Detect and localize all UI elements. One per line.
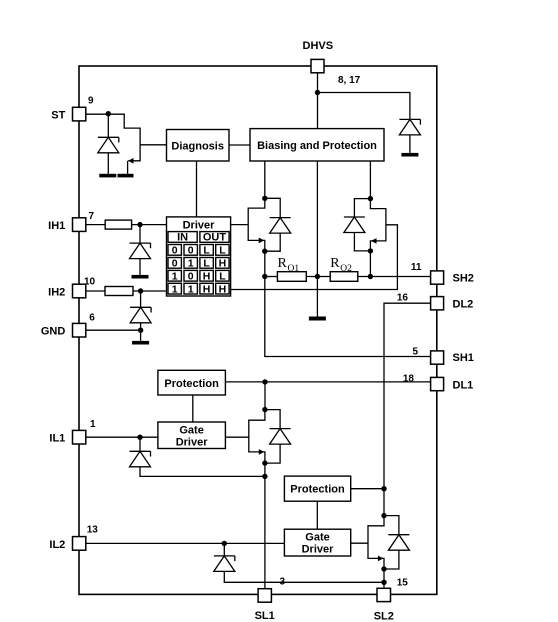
svg-text:L: L (219, 245, 226, 257)
wire ST node to zener D1 (107, 114, 109, 138)
Driver table row 1 0 H L (168, 270, 229, 282)
ground (internal) (309, 317, 326, 321)
node DL1 junction (262, 379, 267, 384)
IC boundary (79, 66, 437, 594)
wire Q1 source to resistor row (264, 251, 266, 276)
pin IH1 (73, 218, 86, 232)
zener D6 (IL2 clamp) (214, 556, 235, 572)
wire zener D5 to ground (409, 135, 411, 153)
svg-text:ST: ST (51, 110, 65, 122)
wire Diagnosis to Driver (196, 161, 198, 217)
svg-text:16: 16 (397, 293, 409, 304)
wire zener D4 to SL1 node (140, 467, 265, 477)
svg-text:0: 0 (188, 270, 194, 282)
Driver table row 1 1 H H (168, 283, 229, 295)
Gate Driver box U7 (channel 2) (284, 529, 350, 556)
zener D3 (IH2 clamp) (130, 307, 151, 323)
wire Gate Driver2 to Q4 gate (351, 542, 368, 544)
node SL1 junction (262, 474, 267, 479)
resistor R2 (IH2 input) (105, 287, 133, 296)
node IL2 junction (222, 541, 227, 546)
svg-text:H: H (219, 258, 227, 270)
svg-text:1: 1 (90, 419, 96, 430)
svg-text:Driver: Driver (183, 220, 216, 232)
svg-text:5: 5 (412, 346, 418, 357)
zener D2 (IH1 clamp) (130, 243, 151, 259)
zener D5 (DHVS clamp) (399, 119, 420, 134)
wire Diagnosis to Biasing (229, 144, 250, 146)
node ST junction (106, 111, 111, 116)
node Q1 drain (262, 196, 267, 201)
node SL2 junction (381, 580, 386, 585)
svg-text:IL2: IL2 (49, 539, 65, 551)
diode Q3 body (265, 410, 291, 464)
Protection box U6 (channel 2) (284, 476, 350, 501)
node GND junction (138, 328, 143, 333)
pin SH2 (431, 271, 444, 284)
wire Gate Driver1 to Q3 gate (225, 436, 248, 438)
wire Q2 source to resistor row (369, 251, 371, 277)
zener D1 (ST clamp) (98, 137, 119, 153)
svg-text:H: H (203, 270, 211, 282)
wire IH2 node to zener D3 (140, 291, 142, 307)
svg-text:R: R (330, 256, 340, 271)
svg-text:DL2: DL2 (453, 299, 474, 311)
ground (ST sense) (118, 174, 134, 178)
svg-text:Protection: Protection (164, 378, 219, 390)
wire DHVS stem to Biasing box (317, 73, 319, 129)
svg-text:3: 3 (280, 577, 286, 588)
diode Q2 body (344, 199, 371, 251)
wire ST pin to current-source bracket (86, 114, 140, 161)
wire DL1 node to Q3 drain (264, 382, 266, 410)
ground (DHVS clamp) (401, 153, 418, 157)
node IH2 junction (138, 288, 143, 293)
wire Driver to Q1 gate (231, 224, 249, 226)
diode Q1 body (265, 198, 291, 251)
svg-text:O1: O1 (288, 264, 300, 274)
pin SH1 (431, 351, 444, 364)
wire R2 to Driver (133, 290, 167, 292)
svg-text:IN: IN (177, 232, 188, 244)
wire zener D6 to SL2 node (224, 571, 384, 582)
svg-text:GND: GND (41, 326, 66, 338)
transistor Q3 (low-side 1) (249, 410, 265, 464)
svg-text:SH1: SH1 (453, 352, 474, 364)
svg-text:H: H (203, 283, 211, 295)
svg-text:Driver: Driver (302, 544, 335, 556)
svg-text:H: H (219, 283, 227, 295)
pin DHVS (311, 59, 324, 72)
wire ST sense to ground (127, 161, 129, 174)
svg-text:Diagnosis: Diagnosis (171, 141, 224, 153)
svg-text:Protection: Protection (290, 484, 345, 496)
pin IH2 (73, 284, 86, 298)
pin GND (73, 323, 86, 337)
wire Q3 source to SL1 pin (264, 463, 266, 589)
svg-text:13: 13 (87, 525, 99, 536)
node Protection2 junction (381, 486, 386, 491)
wire IL1 node to zener D4 (139, 437, 141, 451)
svg-text:8, 17: 8, 17 (338, 75, 361, 86)
svg-text:11: 11 (411, 262, 422, 273)
wire Q4 source to SL2 pin (383, 569, 385, 588)
svg-text:7: 7 (89, 211, 95, 222)
svg-text:Driver: Driver (176, 437, 209, 449)
ground (IH1 clamp) (132, 275, 149, 279)
pin SL1 (258, 589, 271, 603)
svg-text:L: L (219, 270, 226, 282)
wire GND pin to node (86, 329, 141, 331)
transistor Q1 arrow (259, 238, 265, 244)
svg-text:IH2: IH2 (48, 286, 65, 298)
wire Protection2 to Gate Driver2 (316, 501, 318, 529)
svg-text:OUT: OUT (203, 232, 227, 244)
wire Biasing to Q1 drain (264, 161, 266, 198)
transistor Q1 (high-side 1) (248, 198, 265, 251)
wire IH2 pin to resistor (86, 290, 105, 292)
wire resistor row left (265, 276, 278, 278)
svg-text:Biasing and Protection: Biasing and Protection (257, 140, 377, 152)
svg-text:IL1: IL1 (49, 433, 65, 445)
wire bracket to Diagnosis (140, 144, 166, 146)
wire Protection1 to Gate Driver1 (192, 395, 194, 422)
svg-text:L: L (203, 258, 210, 270)
node DHVS junction (315, 90, 320, 95)
node IH1 junction (137, 222, 142, 227)
wire IL2 pin to Gate Driver2 (86, 542, 285, 544)
wire RO1 to RO2 (306, 276, 330, 278)
node Q4 drain (381, 513, 386, 518)
svg-text:0: 0 (188, 245, 194, 257)
wire zener D3 to ground (140, 323, 142, 341)
wire R1 to Driver (132, 224, 167, 226)
svg-text:18: 18 (403, 373, 415, 384)
pin IL2 (73, 537, 86, 551)
wire Protection2 to DL2 vertical (351, 488, 384, 490)
node Q2 source (368, 248, 373, 253)
wire zener D1 to ground (107, 153, 109, 174)
svg-text:DHVS: DHVS (303, 40, 334, 52)
ground (ST clamp) (99, 174, 116, 178)
wire DHVS node to top-right zener (318, 93, 410, 120)
transistor Q2 (high-side 2) (370, 199, 386, 251)
svg-text:6: 6 (89, 313, 95, 324)
node Q2 drain (368, 196, 373, 201)
Diagnosis box U1 (167, 130, 230, 162)
Driver table header OUT (200, 232, 229, 243)
node Q3 source (262, 460, 267, 465)
resistor R1 (IH1 input) (105, 220, 131, 229)
svg-text:SL1: SL1 (255, 610, 275, 622)
wire IL1 pin to Gate Driver1 (86, 436, 158, 438)
svg-text:9: 9 (88, 96, 94, 107)
transistor arrow (ST sense) (128, 158, 134, 164)
wire zener D2 to ground (139, 259, 141, 275)
Gate Driver box U5 (channel 1) (158, 422, 226, 449)
Driver box U3 (167, 217, 231, 296)
resistor RO1 (277, 272, 306, 282)
node Q1 source (262, 249, 267, 254)
svg-text:1: 1 (188, 258, 194, 270)
svg-text:0: 0 (172, 245, 178, 257)
wire Biasing to internal ground (316, 161, 318, 317)
svg-text:IH1: IH1 (48, 220, 65, 232)
wire IH1 pin to resistor (86, 224, 105, 226)
transistor Q2 arrow (371, 238, 377, 244)
svg-text:O2: O2 (340, 264, 352, 274)
wire Protection1 to DL1 pin (225, 381, 430, 383)
wire Biasing to Q2 drain (369, 161, 371, 199)
svg-text:10: 10 (84, 277, 96, 288)
zener D4 (IL1 clamp) (130, 451, 151, 467)
transistor Q4 arrow (378, 556, 384, 562)
node IL1 junction (137, 435, 142, 440)
wire RO2 to SH2 pin (358, 276, 431, 278)
pin ST (73, 107, 86, 121)
resistor RO2 (330, 272, 358, 282)
transistor Q4 (low-side 2) (368, 516, 384, 569)
wire Driver to Q2 gate loop (231, 225, 398, 290)
wire DL2 pin to Protection 2 node (384, 303, 431, 515)
svg-text:SH2: SH2 (453, 272, 474, 284)
Driver table row 0 0 L L (168, 245, 229, 257)
Driver table header IN (168, 232, 197, 243)
wire IL2 node to zener D6 (223, 543, 225, 556)
svg-text:1: 1 (172, 270, 178, 282)
svg-text:Gate: Gate (179, 425, 203, 437)
transistor Q3 arrow (259, 449, 265, 455)
diode Q4 body (384, 516, 409, 569)
node Q3 drain (262, 407, 267, 412)
node resistor row right (368, 274, 373, 279)
node Q4 source (381, 566, 386, 571)
ground (logic) (132, 341, 149, 345)
svg-text:L: L (203, 245, 210, 257)
svg-text:15: 15 (397, 578, 409, 589)
svg-text:1: 1 (172, 283, 178, 295)
Protection box U4 (channel 1) (158, 370, 226, 395)
Biasing and Protection box U2 (250, 129, 384, 161)
pin DL1 (431, 377, 444, 390)
pin IL1 (73, 430, 86, 444)
svg-text:1: 1 (188, 283, 194, 295)
svg-text:R: R (278, 256, 288, 271)
node resistor row center (315, 274, 320, 279)
svg-text:DL1: DL1 (453, 380, 474, 392)
wire IH1 node to zener D2 (139, 225, 141, 244)
pin DL2 (431, 297, 444, 310)
pin SL2 (377, 588, 391, 601)
svg-text:Gate: Gate (305, 532, 329, 544)
svg-text:SL2: SL2 (374, 611, 394, 622)
node resistor row left (262, 274, 267, 279)
Driver table row 0 1 L H (168, 258, 229, 270)
svg-text:0: 0 (172, 258, 178, 270)
wire SH1 from Q1 source branch (265, 277, 431, 357)
